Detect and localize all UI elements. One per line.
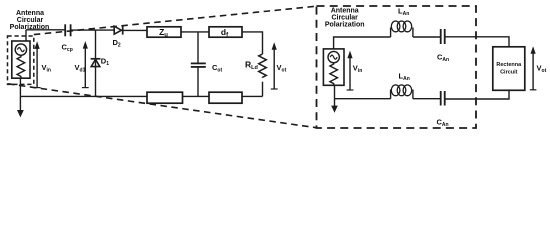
svg-text:Polarization: Polarization <box>325 22 365 29</box>
antenna source box (right) <box>323 49 344 85</box>
block df <box>209 27 242 37</box>
svg-text:D1: D1 <box>101 57 109 68</box>
arrow Vot (left) <box>271 88 278 90</box>
svg-text:Circuit: Circuit <box>500 70 518 76</box>
wire: bottom wire to bottom inductor <box>335 98 391 100</box>
svg-text:LAn: LAn <box>399 72 410 83</box>
svg-text:Ccp: Ccp <box>62 43 73 54</box>
wire: bottom rail segment B <box>183 95 210 97</box>
bottom line block 2 <box>209 92 242 103</box>
antenna internal resistance zigzag (right) <box>330 63 338 86</box>
svg-text:Vd1: Vd1 <box>75 63 86 74</box>
arrow Vd1 <box>82 87 89 89</box>
arrow Vin (left) <box>34 87 41 89</box>
zoom dashed line bottom <box>8 84 317 128</box>
svg-text:RLd: RLd <box>245 60 258 72</box>
wire: source bottom to bottom rail (left) <box>19 78 21 96</box>
AC source symbol (right) <box>328 51 339 62</box>
wire: df to RLd corner <box>242 32 263 54</box>
wire: bottom rail segment A <box>20 95 147 97</box>
wire: bottom inductor to bottom capacitor <box>413 98 441 100</box>
svg-text:Rectenna: Rectenna <box>496 62 522 68</box>
wire: source bottom to bottom wire (right) <box>334 85 336 98</box>
wire: bottom rail segment C <box>242 95 263 97</box>
diode D2 (series, horizontal) <box>114 26 121 34</box>
capacitor Ccp <box>64 24 66 36</box>
resistor RLd <box>259 54 267 78</box>
svg-text:Circular: Circular <box>17 17 44 24</box>
zoom dashed line top <box>34 6 317 34</box>
diode D1 (shunt, vertical) <box>95 30 97 96</box>
arrow Vin (right) <box>347 89 354 91</box>
wire: top rail segment B <box>71 29 115 31</box>
ground arrow (right) <box>334 99 336 106</box>
AC source symbol (left) <box>15 44 26 55</box>
svg-text:Circular: Circular <box>331 15 358 22</box>
capacitor CAn bottom <box>440 91 442 106</box>
svg-text:Antenna: Antenna <box>331 8 359 15</box>
wire: top capacitor to rectenna box <box>445 37 509 47</box>
svg-text:CAn: CAn <box>437 118 449 129</box>
svg-text:Cot: Cot <box>212 63 222 74</box>
svg-text:LAn: LAn <box>398 7 409 18</box>
bottom line block 1 <box>147 92 183 103</box>
block Zu <box>147 27 181 37</box>
svg-text:df: df <box>221 27 229 38</box>
arrow Vot (right) <box>530 89 537 91</box>
wire: top rail segment C <box>124 29 148 31</box>
svg-text:Antenna: Antenna <box>16 10 44 17</box>
inductor LAn top <box>390 28 392 38</box>
antenna source box (left) <box>12 41 30 78</box>
svg-text:Vot: Vot <box>277 63 287 74</box>
capacitor Cot (shunt branch) <box>197 32 199 64</box>
svg-text:D2: D2 <box>113 38 121 49</box>
big dashed enclosure (right) <box>317 6 477 128</box>
inductor LAn bottom <box>390 90 392 99</box>
svg-text:Zu: Zu <box>159 27 168 38</box>
wire: bottom capacitor to rectenna box <box>445 90 509 99</box>
wire: source top to rail (left) <box>25 30 27 41</box>
svg-text:CAn: CAn <box>437 53 449 64</box>
wire: top rail segment A <box>26 29 65 31</box>
antenna internal resistance zigzag (left) <box>17 55 25 78</box>
label: Antenna Circular Polarization (right) <box>325 8 365 29</box>
svg-text:Vin: Vin <box>42 63 51 74</box>
capacitor CAn top <box>440 29 442 44</box>
wire: top rail segment D <box>181 31 209 33</box>
svg-text:Vin: Vin <box>353 64 362 75</box>
wire: source top to top wire (right) <box>334 37 391 49</box>
label: Antenna Circular Polarization (left) <box>10 10 50 31</box>
rectenna circuit block <box>493 47 525 91</box>
wire: top inductor to top capacitor <box>413 36 441 38</box>
svg-text:Vot: Vot <box>537 64 547 75</box>
antenna dashed enclosure (left) <box>8 36 34 84</box>
ground arrow (left) <box>19 96 21 110</box>
